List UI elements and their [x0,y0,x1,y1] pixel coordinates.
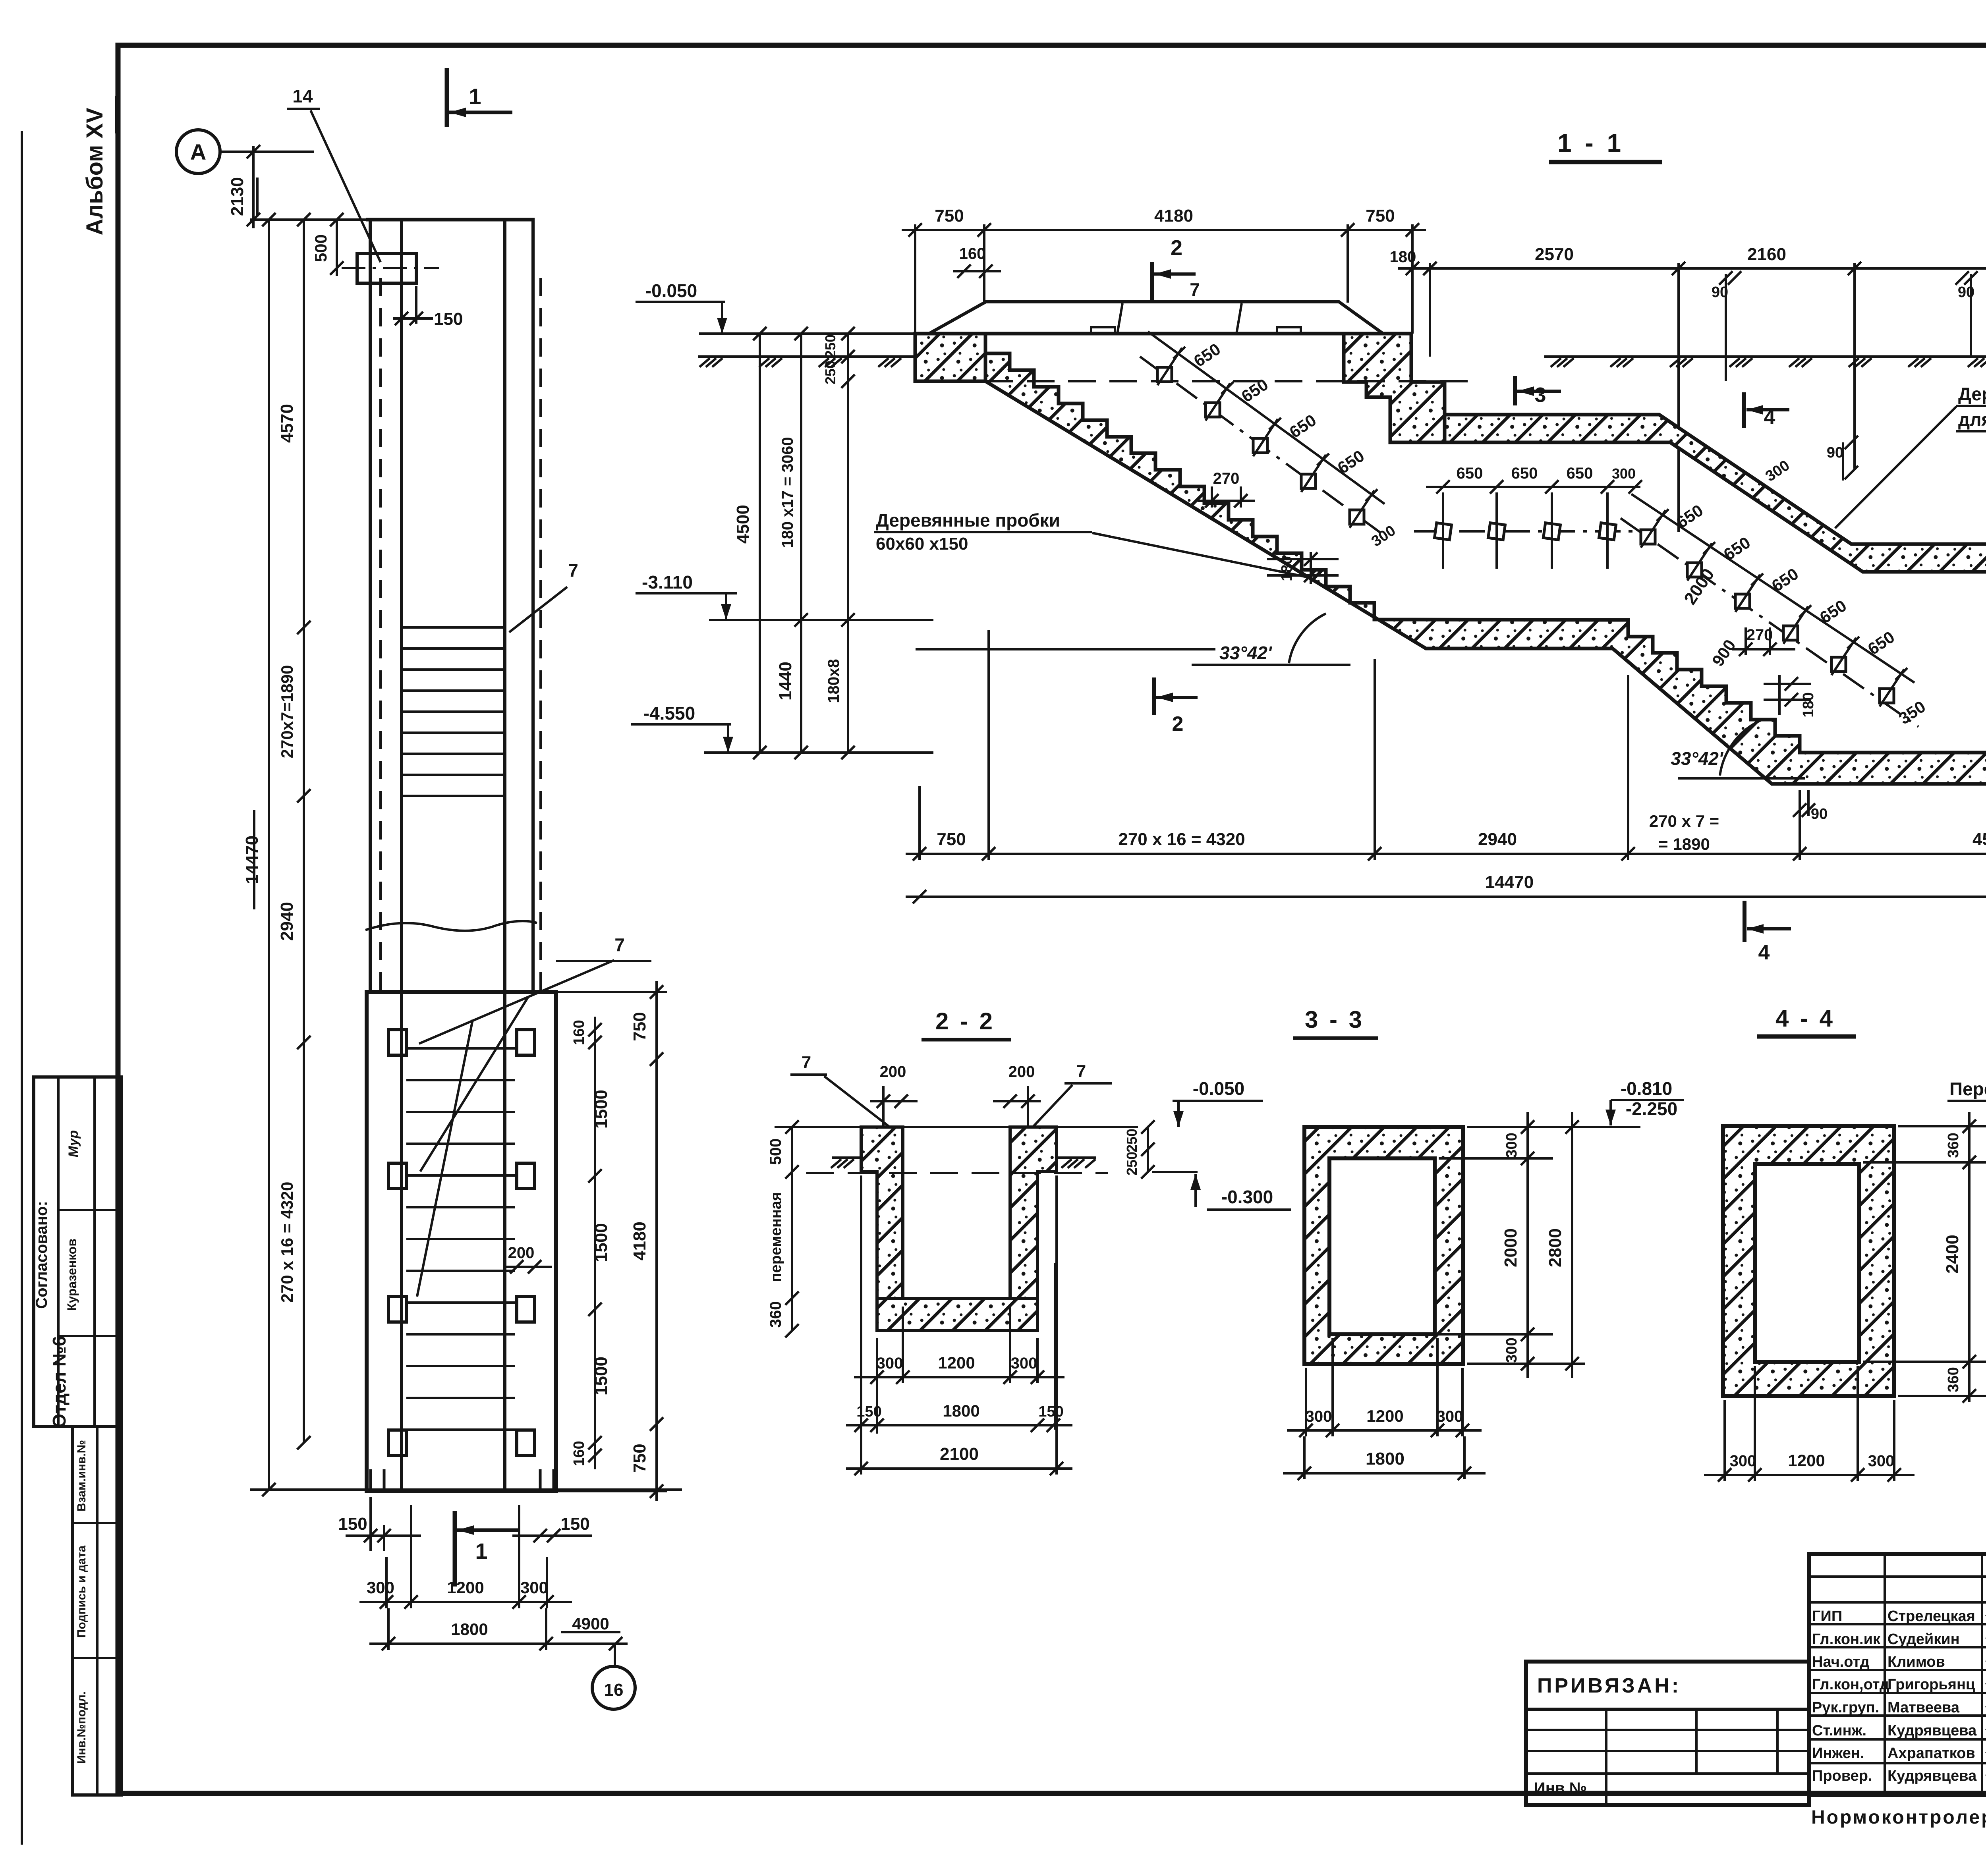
svg-text:180 x17 = 3060: 180 x17 = 3060 [779,437,796,548]
svg-text:300: 300 [367,1578,394,1597]
svg-text:-3.110: -3.110 [642,572,693,593]
svg-text:Нормоконтролер:: Нормоконтролер: [1811,1807,1986,1828]
svg-text:300: 300 [1503,1133,1520,1158]
plug row diagonal flight2 (squares+dims) [1621,518,1918,727]
svg-text:2100: 2100 [940,1444,979,1464]
svg-text:250: 250 [822,361,838,384]
svg-text:-0.050: -0.050 [1193,1078,1244,1099]
svg-text:16: 16 [604,1680,624,1700]
svg-text:14470: 14470 [242,836,262,884]
svg-text:7: 7 [1076,1062,1086,1081]
svg-text:2000: 2000 [1501,1228,1520,1267]
svg-text:200: 200 [880,1063,906,1081]
svg-text:1800: 1800 [451,1620,488,1639]
plan bottom extension line [250,1488,682,1491]
svg-text:150: 150 [338,1514,367,1534]
svg-text:270 x 16 = 4320: 270 x 16 = 4320 [1118,830,1245,849]
svg-text:-0.050: -0.050 [645,280,697,301]
section 2-2 dims 150 1800 150 [846,1424,1072,1426]
ground line left of structure [698,355,915,358]
svg-text:Инв.№: Инв.№ [1534,1779,1587,1797]
svg-text:1800: 1800 [943,1401,979,1420]
left vertical dim line 250 250 180x8 [847,334,849,753]
svg-text:60х60 х150: 60х60 х150 [876,534,968,554]
hidden dashed line below platform [985,380,1468,382]
dim 2130 (plan top) [252,146,255,228]
dims right of pit (750/4180/750) [655,981,658,1501]
svg-text:250: 250 [1124,1152,1140,1175]
svg-text:150: 150 [434,309,463,329]
svg-text:Ахрапатков: Ахрапатков [1887,1745,1975,1762]
svg-text:Гл.кон,отд: Гл.кон,отд [1812,1676,1889,1693]
svg-text:для крепления ограждения: для крепления ограждения [1958,409,1986,430]
wall stubs below pit [369,1469,372,1490]
section flag 1 (plan top) [445,68,449,127]
section flag 4 (upper) [1742,392,1746,428]
svg-text:90: 90 [1827,444,1843,461]
svg-text:250: 250 [822,334,838,358]
bottom dim row B 14470 2130 [906,896,1986,898]
platform top line [915,332,1412,336]
svg-text:270 x 16 = 4320: 270 x 16 = 4320 [278,1182,296,1303]
wooden plug squares (plan pit) [388,1030,406,1055]
svg-text:-2.250: -2.250 [1626,1098,1677,1119]
svg-text:Согласовано:: Согласовано: [33,1201,50,1309]
svg-text:150: 150 [560,1514,589,1534]
signature table [1809,1554,1986,1795]
svg-text:Судейкин: Судейкин [1887,1631,1960,1648]
svg-text:90: 90 [1811,806,1828,822]
svg-text:Григорьянц: Григорьянц [1887,1676,1975,1693]
upper pit floor and slope and -2.250 floor (hatched band) [1445,415,1986,572]
svg-text:3 - 3: 3 - 3 [1305,1006,1364,1033]
svg-text:-0.300: -0.300 [1221,1187,1273,1207]
svg-text:Климов: Климов [1887,1654,1945,1670]
section 2-2 left wall (hatched) [861,1127,903,1299]
svg-text:750: 750 [1366,206,1395,226]
svg-text:4: 4 [1764,406,1775,429]
svg-text:14: 14 [292,86,313,106]
svg-text:Куразенков: Куразенков [65,1239,79,1311]
leader line pos 14 [311,110,381,262]
svg-text:160: 160 [959,245,986,262]
svg-text:Отдел №6: Отдел №6 [49,1336,70,1428]
pit box (plan lower) [367,992,556,1491]
right entrance block and wall (hatched) [1344,334,1445,442]
plug row diagonal flight1 (squares+dims) [1140,357,1386,537]
bottom dim row A (section 1-1) [906,853,1986,855]
svg-text:200: 200 [1008,1063,1035,1081]
svg-text:2: 2 [1171,236,1182,260]
svg-text:Взам.инв.№: Взам.инв.№ [75,1440,88,1511]
svg-text:33°42': 33°42' [1671,748,1724,769]
section 2-2 ground hatches [832,1156,861,1159]
svg-text:Мур: Мур [66,1130,81,1157]
ground line right [1544,355,1986,358]
svg-text:650: 650 [1567,465,1593,482]
dim line 650 650 650 300 (landing plugs) [1426,486,1640,488]
break wave (plan shaft) [365,921,537,931]
svg-text:Альбом XV: Альбом XV [82,108,108,235]
svg-text:2160: 2160 [1747,245,1786,264]
svg-text:180: 180 [1390,248,1416,266]
left vertical dim line 180x17 1440 [800,334,802,753]
svg-text:270: 270 [1213,470,1240,487]
svg-text:360: 360 [1945,1133,1962,1158]
scan left paper edge line [21,131,23,1845]
svg-text:Рук.груп.: Рук.груп. [1812,1699,1879,1716]
svg-text:360: 360 [767,1301,784,1328]
dim 150 left (plan bottom) [346,1534,421,1537]
dim row2 180 2570 2160 3880 (section top right) [1398,267,1986,270]
section 2-2 bottom dims 300 1200 300 [1054,1263,1056,1430]
svg-text:2940: 2940 [1478,830,1517,849]
svg-text:переменная: переменная [768,1192,784,1282]
section flag 3 (upper left) [1513,376,1517,405]
svg-text:4570: 4570 [1972,830,1986,849]
svg-text:2570: 2570 [1535,245,1574,264]
svg-text:2400: 2400 [1943,1235,1962,1274]
svg-text:4180: 4180 [1154,206,1193,226]
svg-text:Гл.кон.ик: Гл.кон.ик [1812,1631,1881,1648]
svg-text:180x8: 180x8 [825,659,842,703]
section 2-2 right wall (hatched) [1010,1127,1057,1299]
svg-text:150: 150 [1038,1403,1063,1420]
svg-text:2 - 2: 2 - 2 [935,1008,995,1035]
svg-text:Деревянные пробки 60х60х150: Деревянные пробки 60х60х150 [1958,384,1986,404]
dim 200 (pit plug) [504,1266,552,1268]
svg-text:160: 160 [571,1441,587,1466]
dim row 750 4180 750 (section top) [902,229,1426,231]
svg-text:Кудрявцева: Кудрявцева [1887,1722,1977,1739]
svg-text:Провер.: Провер. [1812,1768,1872,1784]
left entrance block (hatched) [915,334,985,381]
level -0.300 (2-2) [1152,1171,1198,1173]
pit treads (plan) [406,1047,515,1050]
section 2-2 dashed ground line [806,1172,1108,1174]
dim 270 (flight1 tread) [1198,500,1255,502]
stamp box group lower (Inv No) [72,1426,122,1795]
svg-text:Деревянные пробки: Деревянные пробки [876,510,1060,531]
svg-text:300: 300 [1730,1452,1756,1470]
left vertical dim line 4500 [759,334,761,753]
section 2-2 right dims 250 250 [1147,1127,1149,1172]
svg-text:Нач.отд: Нач.отд [1812,1654,1870,1670]
section 3-3 right dims 300 2000 300 [1526,1112,1529,1378]
svg-text:4: 4 [1758,941,1770,964]
svg-text:750: 750 [630,1444,649,1473]
svg-text:Инжен.: Инжен. [1812,1745,1864,1762]
svg-text:1200: 1200 [938,1353,975,1372]
svg-text:2: 2 [1172,712,1184,735]
svg-text:Матвеева: Матвеева [1887,1699,1960,1716]
plan hidden wall lines dashed [379,278,382,991]
carrier lines plan top [250,218,366,221]
svg-text:4570: 4570 [277,404,297,443]
upper treads (plan) [402,626,505,629]
svg-text:160: 160 [571,1020,587,1045]
section 4-4 ring (hatched) [1723,1126,1894,1396]
dims right of pit (160/1500) [594,1017,596,1469]
section flag 2 (bottom) [1152,677,1156,715]
stair flight 1 with landing and lower floor (hatched band) [985,353,1986,784]
section 2-2 left dims 500 peremennaya 360 [791,1127,793,1331]
svg-text:300: 300 [1503,1338,1520,1363]
section flag 2 (top) [1150,262,1154,300]
svg-text:250: 250 [1124,1129,1140,1152]
svg-text:1200: 1200 [1788,1451,1825,1470]
plug row horizontal (landing) [1414,530,1638,533]
axis A circle (plan) [176,130,220,174]
dim 500 (plug) [336,220,338,276]
svg-text:360: 360 [1945,1367,1962,1392]
svg-text:750: 750 [935,206,964,226]
plan shaft wall lines [369,220,372,991]
dim chain left of plan (4570 / 270x7 / 2940 / 270x16) [303,220,305,1443]
svg-text:7: 7 [802,1053,811,1072]
section 2-2 floor slab (hatched) [877,1299,1037,1330]
section 2-2 dim 2100 [846,1467,1072,1470]
svg-text:300: 300 [1306,1408,1332,1425]
svg-text:33°42': 33°42' [1219,643,1273,663]
svg-text:300: 300 [1437,1408,1463,1425]
section 3-3 ring (hatched) [1304,1127,1463,1364]
section 3-3 bottom dims 300 1200 300 [1287,1429,1482,1432]
hatch cover (trapezoid) [929,302,1383,334]
svg-text:300: 300 [1868,1452,1895,1470]
svg-text:500: 500 [767,1139,784,1165]
svg-text:300: 300 [877,1355,903,1372]
dim line 650x flight1 [1148,332,1385,504]
svg-text:500: 500 [311,234,330,262]
wooden plug pos14 rect (plan) [357,253,416,283]
dim 150 (plug offset) [393,317,433,320]
section 4-4 bottom dims 300 1200 300 [1704,1474,1915,1476]
svg-text:200: 200 [508,1244,535,1262]
overall dim 14470 (plan) [268,220,270,1490]
svg-text:750: 750 [630,1012,649,1041]
plan top edge [366,218,535,222]
svg-text:300: 300 [520,1578,548,1597]
svg-text:1500: 1500 [591,1090,611,1129]
dim row 1800 4900 (plan bottom) [369,1642,628,1645]
svg-text:Стрелецкая: Стрелецкая [1887,1608,1975,1625]
section 3-3 dim 1800 [1283,1472,1486,1475]
svg-text:270x7=1890: 270x7=1890 [278,665,296,759]
svg-text:ГИП: ГИП [1812,1608,1842,1625]
section 2-2 top line [790,1126,1138,1128]
svg-text:= 1890: = 1890 [1658,835,1710,853]
svg-text:750: 750 [937,830,966,849]
stamp box group upper (Soglasovano) [34,1077,122,1426]
svg-text:1: 1 [469,84,481,109]
svg-text:7: 7 [568,560,578,581]
svg-text:Переменная: Переменная [1949,1079,1986,1099]
svg-text:1500: 1500 [591,1223,611,1262]
svg-text:Инв.№подл.: Инв.№подл. [75,1691,88,1764]
svg-text:А: А [190,139,206,164]
svg-text:14470: 14470 [1485,872,1534,892]
dim 150 right (plan bottom) [512,1534,592,1537]
svg-text:650: 650 [1511,465,1538,482]
axis A line (plan) [220,151,314,153]
svg-text:-4.550: -4.550 [643,703,695,724]
svg-text:650: 650 [1457,465,1483,482]
svg-text:ПРИВЯЗАН:: ПРИВЯЗАН: [1537,1674,1681,1697]
section 3-3 dim 2800 [1571,1112,1573,1378]
svg-text:1200: 1200 [447,1578,484,1597]
dim 180 (flight2 riser) [1778,675,1781,715]
svg-text:1200: 1200 [1366,1407,1403,1425]
svg-text:Кудрявцева: Кудрявцева [1887,1768,1977,1784]
svg-text:1800: 1800 [1366,1449,1404,1469]
privyazan box [1526,1662,1809,1805]
svg-text:Ст.инж.: Ст.инж. [1812,1722,1866,1739]
plug centerline dash-dot [342,267,439,269]
svg-text:1 - 1: 1 - 1 [1557,129,1624,157]
svg-text:300: 300 [1612,465,1636,482]
svg-text:3: 3 [1535,384,1546,407]
svg-text:270 x 7 =: 270 x 7 = [1649,812,1719,830]
section 4-4 right dims 360 2400 360 [1968,1112,1971,1402]
svg-text:2800: 2800 [1546,1228,1565,1267]
svg-text:2130: 2130 [228,177,247,216]
svg-text:4900: 4900 [572,1614,609,1633]
svg-text:7: 7 [614,934,625,955]
svg-text:-0.810: -0.810 [1621,1078,1672,1099]
svg-text:4 - 4: 4 - 4 [1775,1005,1835,1032]
svg-text:1440: 1440 [776,662,795,701]
svg-text:2940: 2940 [277,902,297,941]
svg-text:300: 300 [1011,1355,1037,1372]
svg-text:7: 7 [1190,279,1200,300]
svg-text:180: 180 [1800,692,1817,717]
svg-text:1500: 1500 [591,1357,611,1395]
section flag 4 (bottom) [1743,901,1746,942]
dim row 300 1200 300 (plan bottom) [359,1601,572,1603]
dim 270 (flight2 tread) [1732,648,1795,650]
svg-text:1: 1 [475,1538,487,1563]
section flag 1 (plan bottom) [453,1511,457,1586]
axis circle 16 (plan bottom) [592,1666,635,1709]
svg-text:Подпись и дата: Подпись и дата [75,1545,88,1638]
svg-text:4180: 4180 [630,1222,649,1260]
svg-text:4500: 4500 [733,505,753,544]
